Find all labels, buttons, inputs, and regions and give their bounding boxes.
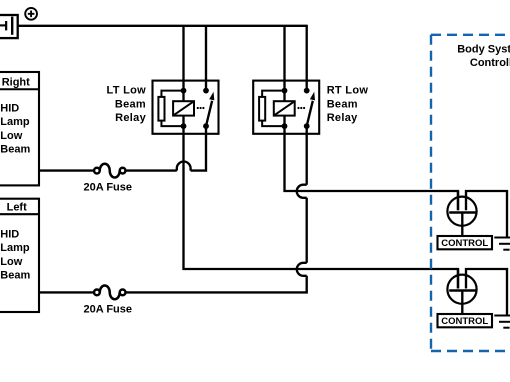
transistor Q2 driver circle: [447, 275, 476, 304]
wire: Q2 drain to ground: [466, 269, 507, 315]
label RT Low Beam Relay: [327, 85, 369, 125]
wire: K2 switch down to fuse F2 with two hops: [125, 126, 306, 292]
svg-text:Beam: Beam: [0, 144, 30, 156]
label Body System Controller: [457, 44, 510, 69]
svg-text:Beam: Beam: [115, 98, 146, 110]
fuse F2 20A: [94, 286, 125, 300]
node: K1 coil bottom junction: [181, 123, 187, 129]
relay K1 coil suppression resistor: [158, 91, 183, 127]
node: K2 coil bottom junction: [282, 123, 288, 129]
label Right HID Lamp Low Beam: [0, 77, 30, 156]
ground G1: [494, 238, 510, 250]
svg-text:Right: Right: [2, 77, 30, 89]
svg-text:Body System: Body System: [457, 44, 510, 56]
transistor Q1 gate stem: [461, 214, 463, 237]
relay K1 coil: [173, 101, 194, 115]
relay K2 actuator link dots: [297, 107, 305, 109]
svg-text:LT Low: LT Low: [107, 85, 147, 97]
relay K1 box (LT Low Beam Relay): [153, 81, 219, 134]
control box 1: [438, 236, 493, 249]
wire: fuse F1 to K1 switch, hop over coil wire: [125, 126, 206, 171]
wire: fuse F2 to left lamp: [39, 291, 94, 293]
svg-text:Controller: Controller: [470, 57, 510, 69]
relay K2 switch fixed contact: [304, 88, 310, 94]
svg-text:Beam: Beam: [327, 98, 358, 110]
transistor Q1 source prong: [457, 191, 459, 210]
wire: rail to K1 coil: [182, 26, 184, 101]
wire: rail to K2 coil: [283, 26, 285, 101]
transistor Q1 gate bar: [449, 211, 476, 214]
Right HID lamp box: [0, 72, 39, 185]
transistor Q2 gate bar: [449, 289, 476, 292]
wire: K2 coil to transistor Q1 input: [285, 116, 459, 211]
Left HID lamp box: [0, 199, 39, 312]
transistor Q2 source prong: [457, 269, 459, 289]
node: K2 coil top junction: [282, 88, 288, 94]
svg-text:Lamp: Lamp: [0, 116, 30, 128]
svg-text:20A Fuse: 20A Fuse: [84, 182, 133, 194]
svg-text:Lamp: Lamp: [0, 242, 30, 254]
relay K2 switch common contact: [304, 123, 310, 129]
label Left HID Lamp Low Beam: [0, 202, 30, 282]
B+ terminal symbol: [25, 8, 37, 20]
wire: K1 coil to transistor Q2 input: [184, 116, 459, 289]
relay K1 switch blade with arrow: [206, 92, 214, 126]
relay K1 switch fixed contact: [203, 88, 209, 94]
node: K1 coil top junction: [181, 88, 187, 94]
svg-text:HID: HID: [0, 103, 19, 115]
control box 2: [438, 314, 493, 327]
svg-text:RT Low: RT Low: [327, 85, 369, 97]
label LT Low Beam Relay: [107, 85, 147, 125]
transistor Q2 gate stem: [461, 292, 463, 315]
svg-text:20A Fuse: 20A Fuse: [84, 304, 133, 316]
wire: battery positive feed rail: [18, 25, 308, 27]
relay K2 coil suppression resistor: [259, 91, 284, 127]
relay K2 box (RT Low Beam Relay): [253, 81, 319, 134]
fuse F1 20A: [94, 164, 125, 178]
svg-text:Low: Low: [0, 256, 22, 268]
relay K2 switch blade with arrow: [307, 92, 315, 126]
ground G2: [494, 316, 510, 328]
svg-text:CONTROL: CONTROL: [441, 238, 488, 249]
svg-text:HID: HID: [0, 228, 19, 240]
body system controller dashed box: [431, 35, 510, 351]
wire: Q1 drain to ground: [466, 191, 507, 237]
svg-text:Beam: Beam: [0, 270, 30, 282]
battery: [0, 15, 18, 38]
svg-text:Low: Low: [0, 130, 22, 142]
svg-text:CONTROL: CONTROL: [441, 316, 488, 327]
svg-text:Relay: Relay: [327, 112, 358, 124]
transistor Q1 driver circle: [447, 197, 476, 226]
wire: rail to K2 switch contact: [306, 26, 308, 91]
wire: rail to K1 switch contact: [205, 26, 207, 91]
relay K2 coil: [274, 101, 295, 115]
wire: right lamp to fuse F1: [39, 169, 94, 171]
svg-text:Relay: Relay: [115, 112, 146, 124]
svg-text:Left: Left: [7, 202, 28, 214]
relay K1 actuator link dots: [197, 107, 205, 109]
relay K1 switch common contact: [203, 123, 209, 129]
